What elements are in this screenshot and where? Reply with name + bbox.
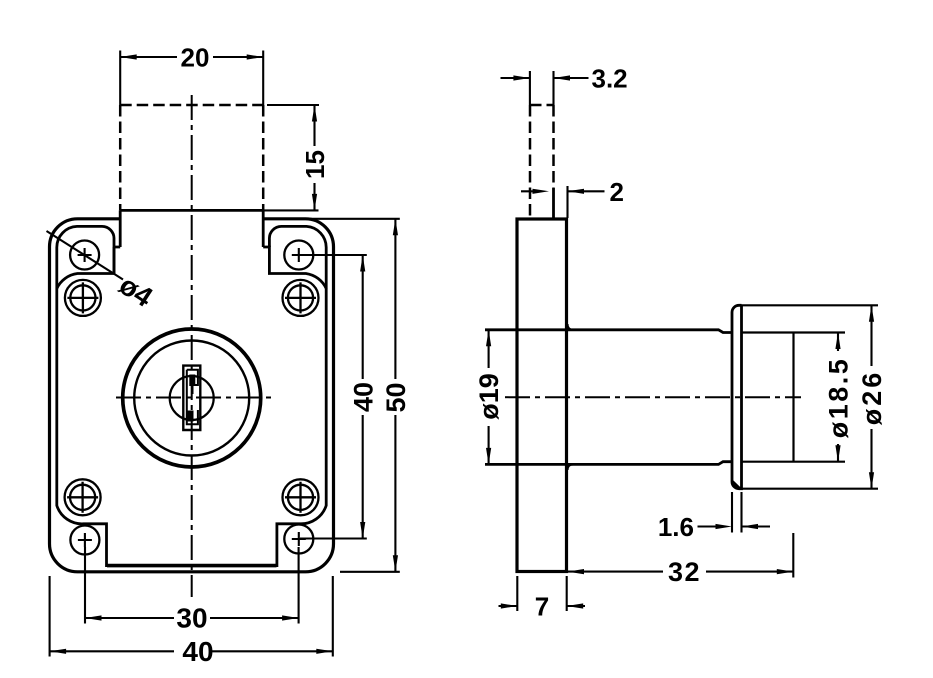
dim 15 (right of latch)	[263, 105, 330, 210]
fillets at plate	[568, 324, 574, 470]
svg-text:20: 20	[181, 43, 210, 73]
svg-text:40: 40	[182, 636, 213, 667]
cylinder body	[485, 330, 732, 465]
screw hole bottom-left	[65, 479, 101, 515]
corner hole top-right	[284, 241, 313, 270]
dim 2	[521, 177, 624, 218]
svg-text:3.2: 3.2	[592, 64, 628, 94]
svg-text:40: 40	[348, 382, 378, 412]
lock body inner outline with corner hole notches	[57, 226, 120, 288]
svg-text:30: 30	[176, 603, 207, 634]
svg-text:50: 50	[381, 382, 411, 412]
cylinder outer circle	[123, 329, 261, 467]
vertical centerline	[191, 95, 193, 597]
dim 3.2	[501, 64, 628, 106]
corner hole bottom-left	[70, 526, 99, 555]
dim 7	[499, 576, 586, 622]
svg-text:2: 2	[610, 177, 624, 207]
dim 04 leader	[47, 231, 159, 313]
dim 50 (far right vertical)	[263, 219, 411, 572]
keyhole	[183, 366, 200, 430]
cam circle	[170, 376, 214, 420]
corner hole bottom-right	[284, 525, 313, 554]
horizontal centerline side view	[505, 396, 801, 398]
dim 40 (right vertical)	[300, 255, 378, 539]
lock body outer outline	[50, 219, 334, 572]
dim 018.5	[824, 333, 854, 462]
dim 1.6	[658, 492, 770, 542]
svg-text:15: 15	[300, 150, 330, 179]
horizontal centerline	[116, 397, 274, 399]
screw hole top-right	[283, 280, 319, 316]
svg-text:ø19: ø19	[474, 373, 504, 420]
dim 20 (top)	[120, 43, 263, 106]
corner hole top-left	[70, 241, 99, 270]
latch bolt extended position (dashed)	[119, 105, 122, 210]
rear cylinder section (018.5)	[742, 333, 846, 462]
svg-text:ø26: ø26	[857, 370, 887, 426]
svg-text:1.6: 1.6	[658, 512, 694, 542]
dim 32	[568, 533, 794, 587]
latch bolt (front view, solid visible part)	[120, 209, 263, 212]
svg-text:32: 32	[668, 557, 701, 587]
screw hole top-left	[65, 280, 101, 316]
dim 026	[742, 305, 888, 488]
latch bolt side solid front edge	[552, 188, 555, 219]
svg-text:ø18.5: ø18.5	[824, 357, 854, 439]
dim 30 (bottom)	[85, 547, 299, 634]
svg-text:7: 7	[535, 592, 549, 622]
dim 40 (bottom)	[50, 576, 333, 667]
dim 019	[474, 330, 504, 465]
flange	[732, 305, 742, 488]
cylinder inner circle	[134, 341, 249, 456]
latch bolt side (dashed extended)	[529, 105, 532, 219]
screw hole bottom-right	[283, 479, 319, 515]
back plate	[517, 219, 567, 572]
